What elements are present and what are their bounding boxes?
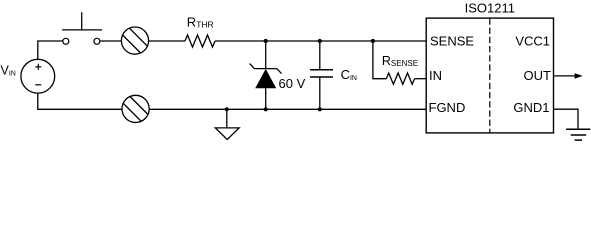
svg-text:ISO1211: ISO1211 xyxy=(465,1,515,16)
svg-text:FGND: FGND xyxy=(429,100,466,115)
svg-text:60 V: 60 V xyxy=(279,76,306,91)
svg-text:SENSE: SENSE xyxy=(430,34,474,49)
svg-text:OUT: OUT xyxy=(524,68,552,83)
svg-text:VCC1: VCC1 xyxy=(515,33,550,48)
svg-text:GND1: GND1 xyxy=(513,100,549,115)
svg-text:IN: IN xyxy=(429,68,442,83)
